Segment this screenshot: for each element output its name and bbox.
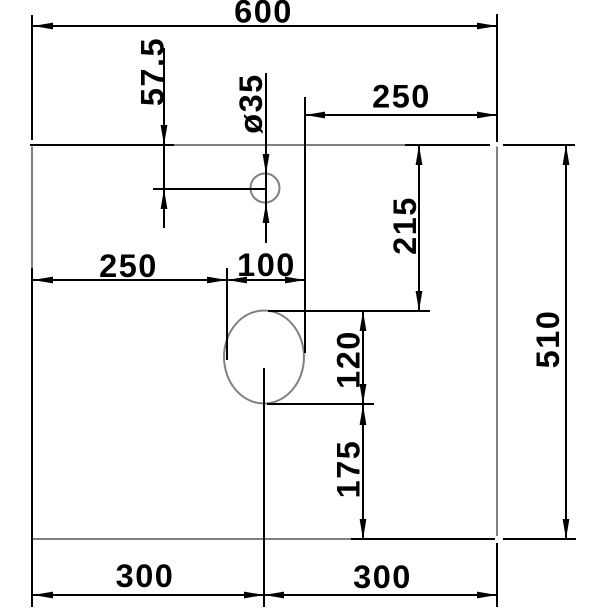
svg-text:175: 175	[331, 440, 367, 499]
svg-text:215: 215	[387, 196, 423, 255]
svg-text:100: 100	[237, 247, 296, 283]
svg-text:510: 510	[530, 310, 566, 369]
svg-text:57.5: 57.5	[135, 37, 171, 106]
svg-text:ø35: ø35	[233, 73, 269, 134]
svg-text:300: 300	[116, 558, 175, 594]
svg-text:600: 600	[234, 0, 293, 30]
svg-text:250: 250	[99, 248, 158, 284]
svg-text:250: 250	[372, 79, 431, 115]
svg-text:120: 120	[331, 330, 367, 389]
svg-text:300: 300	[353, 559, 412, 595]
